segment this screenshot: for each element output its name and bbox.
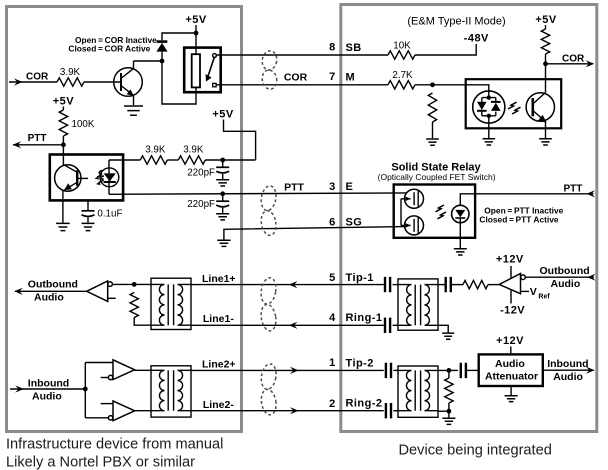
wire A4 output (outbound audio) xyxy=(525,276,594,278)
wire Line2- to cap xyxy=(191,410,384,412)
wire Line1- to cap xyxy=(191,324,384,326)
svg-text:PTT: PTT xyxy=(28,133,47,144)
U2 bidirectional LED xyxy=(473,91,505,123)
wire +5V to 100K xyxy=(62,107,64,111)
svg-text:Infrastructure device from man: Infrastructure device from manual xyxy=(6,436,223,452)
ground below U1 emitter xyxy=(56,223,70,230)
svg-text:PTT: PTT xyxy=(284,182,304,194)
relay K1 contact square xyxy=(213,83,216,86)
svg-text:Closed = PTT Active: Closed = PTT Active xyxy=(479,215,558,225)
Line2+ arrowhead xyxy=(290,367,299,374)
svg-text:3.9K: 3.9K xyxy=(145,145,166,156)
svg-text:+5V: +5V xyxy=(185,14,206,26)
wire pull-up to collector xyxy=(545,54,547,93)
wire SG line (ground to SSR) xyxy=(224,227,405,240)
wire Q1 collector to diode node xyxy=(134,60,163,62)
node A1 input junction xyxy=(132,282,137,287)
ground below U2 LED xyxy=(483,139,496,145)
ground below 220pF-2 xyxy=(216,214,229,220)
svg-text:-12V: -12V xyxy=(500,304,525,316)
svg-text:4: 4 xyxy=(329,312,336,324)
svg-text:8: 8 xyxy=(329,42,335,54)
transistor Q1 (COR input) xyxy=(114,61,143,105)
svg-text:-48V: -48V xyxy=(464,32,489,44)
resistor (outbound gain) xyxy=(463,280,488,288)
wire inbound to buffer inputs xyxy=(85,363,113,418)
wire +5V bracket xyxy=(224,120,256,161)
svg-text:2: 2 xyxy=(329,398,335,410)
U2 emitter arrowhead xyxy=(538,115,547,123)
svg-text:COR: COR xyxy=(284,71,308,83)
wire +12V to attenuator xyxy=(510,347,512,355)
U1 photon arrows xyxy=(97,171,103,178)
ground below U3 LED xyxy=(454,249,467,255)
wire Ring-1 to transformer xyxy=(393,324,398,326)
SSR U3 box xyxy=(394,185,475,238)
inbound arrowhead xyxy=(15,385,24,392)
wire Ring-2 to transformer xyxy=(393,410,398,412)
optocoupler U1 box xyxy=(50,155,123,201)
wire 10K to -48V xyxy=(415,44,476,55)
svg-text:10K: 10K xyxy=(393,41,411,52)
svg-text:Audio: Audio xyxy=(34,291,64,303)
ground below T4 xyxy=(442,418,455,424)
svg-text:+12V: +12V xyxy=(496,335,524,347)
diode D1 flyback xyxy=(157,40,168,43)
op-amp A1 (outbound buffer) xyxy=(87,281,116,301)
svg-text:COR: COR xyxy=(562,53,585,64)
svg-text:Audio: Audio xyxy=(551,278,581,290)
svg-text:V: V xyxy=(530,286,537,298)
COR input arrowhead xyxy=(14,78,23,85)
resistor (T4 termination) xyxy=(445,378,453,403)
wire 2.7K to U2 LED xyxy=(415,85,489,91)
capacitor C (audio in) xyxy=(461,363,466,378)
svg-text:Audio: Audio xyxy=(32,391,62,403)
resistor 3.9K (a) xyxy=(140,156,167,164)
wire Tip-1 to transformer xyxy=(393,284,398,286)
svg-text:Inbound: Inbound xyxy=(547,358,588,370)
ground below M pull-down xyxy=(426,139,439,145)
node T4 top junction xyxy=(447,368,452,373)
twisted pair line2 (twisted pair) xyxy=(260,363,278,416)
wire T4 top to cap xyxy=(438,369,458,371)
node PTT junction xyxy=(61,142,66,147)
wire +12V to A4 xyxy=(510,266,512,279)
wire T4 bottom xyxy=(438,410,449,412)
op-amp A4 (outbound) xyxy=(499,274,529,294)
wire E line (LED cathode to SSR) xyxy=(109,193,406,194)
svg-text:Outbound: Outbound xyxy=(28,278,78,290)
wire inbound audio input xyxy=(10,388,85,390)
wire C to resistor xyxy=(452,284,463,286)
resistor (M pull-down) xyxy=(428,93,436,122)
ground below U2 transistor xyxy=(539,139,552,145)
transformer T3 xyxy=(398,279,438,330)
wire COR input xyxy=(9,81,57,83)
wire pull-down to ground xyxy=(432,122,434,138)
svg-text:3.9K: 3.9K xyxy=(60,67,81,78)
wire +5V to relay coil top xyxy=(195,25,197,55)
svg-text:Closed = COR Active: Closed = COR Active xyxy=(68,44,150,54)
ground below 0.1uF xyxy=(82,223,95,230)
wire C to attenuator xyxy=(467,369,479,371)
svg-text:Device being integrated: Device being integrated xyxy=(399,443,552,459)
Line2- arrowhead xyxy=(290,407,299,414)
U3 FET 1 xyxy=(401,189,424,208)
wire relay contact bottom to pin 7 xyxy=(216,84,388,86)
relay arm arrowhead xyxy=(206,74,212,82)
svg-text:0.1uF: 0.1uF xyxy=(97,209,122,220)
Q1 emitter arrowhead xyxy=(127,89,134,96)
wire U1 box to 0.1uF xyxy=(87,200,89,210)
wire A4 to -12V xyxy=(510,291,512,304)
node U2 LED bottom xyxy=(487,114,491,118)
node diode/collector junction xyxy=(160,59,165,64)
node M divider junction xyxy=(430,82,435,87)
wire 100K to opto collector xyxy=(62,136,64,166)
svg-text:SB: SB xyxy=(346,42,362,54)
U1 LED triangle and cathode bar xyxy=(104,173,116,181)
wire attenuator to ground xyxy=(510,386,512,395)
wire node to 220pF-2 xyxy=(222,194,224,201)
PTT output arrowhead xyxy=(13,141,22,148)
wire A1 input to T1 xyxy=(112,283,151,285)
wire U3 LED cathode to ground xyxy=(459,218,461,248)
right enclosure box (device being integrated) xyxy=(341,5,597,432)
optocoupler U2 box xyxy=(466,79,562,128)
svg-text:M: M xyxy=(346,72,356,84)
buffer A2 (Line2+ driver) xyxy=(101,360,135,380)
node T4 bottom junction xyxy=(447,409,452,414)
wire attenuator output (inbound audio) xyxy=(543,369,594,371)
svg-text:220pF: 220pF xyxy=(187,168,215,179)
U3 photon bolts xyxy=(436,205,445,212)
node U2 LED top xyxy=(487,95,491,99)
relay K1 contact circle xyxy=(213,54,217,58)
ground below T3 xyxy=(442,333,454,339)
svg-text:Line2-: Line2- xyxy=(203,399,234,411)
node +5V/diode junction xyxy=(194,31,199,36)
wire +5V stub xyxy=(545,25,547,29)
COR out arrowhead xyxy=(586,60,595,67)
U1 phototransistor xyxy=(55,165,88,192)
svg-text:2.7K: 2.7K xyxy=(392,70,413,81)
svg-text:COR: COR xyxy=(26,72,49,83)
resistor 3.9K (b) xyxy=(178,156,205,164)
wire outbound audio output xyxy=(15,290,87,292)
svg-text:E: E xyxy=(346,181,354,193)
svg-text:Ring-2: Ring-2 xyxy=(346,398,383,410)
svg-text:7: 7 xyxy=(329,71,335,83)
svg-text:+12V: +12V xyxy=(496,253,524,265)
wire U1 emitter to ground xyxy=(62,191,64,223)
wire 3.9K to +5V bracket xyxy=(205,159,255,161)
transformer T1 xyxy=(151,278,191,329)
inbound audio arrowhead (right) xyxy=(586,367,595,374)
U2 LED right diode (up) xyxy=(491,103,501,111)
svg-text:+5V: +5V xyxy=(212,109,233,121)
resistor 10K xyxy=(388,51,415,59)
wire PTT output xyxy=(13,144,63,146)
U1 emitter arrowhead xyxy=(64,183,72,190)
resistor (COR pull-up) xyxy=(541,29,549,54)
wire U3 LED anode to PTT xyxy=(460,194,593,206)
svg-text:Ring-1: Ring-1 xyxy=(346,312,383,324)
outbound arrowhead xyxy=(14,288,23,295)
wire resistor to A4 xyxy=(488,284,499,286)
outbound audio arrowhead (right) xyxy=(587,274,596,281)
twisted pair COR (twisted pair) xyxy=(261,50,278,90)
left enclosure box (infrastructure device) xyxy=(7,7,242,432)
U1 LED (with frame) xyxy=(100,160,123,194)
wire node to 220pF-1 xyxy=(222,160,224,167)
U3 LED xyxy=(452,205,469,222)
svg-text:Inbound: Inbound xyxy=(28,378,69,390)
svg-text:(Optically Coupled FET Switch): (Optically Coupled FET Switch) xyxy=(378,172,496,182)
wire U2 LED to ground xyxy=(488,123,490,138)
U2 photon bolts xyxy=(508,102,517,109)
wire Tip-2 to transformer xyxy=(393,369,398,371)
svg-text:SG: SG xyxy=(346,216,363,228)
wire Line1+ to cap xyxy=(191,284,384,286)
twisted pair line1 (twisted pair) xyxy=(259,277,277,332)
wire Line2+ to cap xyxy=(191,369,384,371)
U2 phototransistor xyxy=(526,93,554,139)
relay K1 xyxy=(184,48,221,93)
resistor (T1 termination) xyxy=(130,293,138,318)
ground below attenuator xyxy=(505,396,518,402)
wire A3 output to T2 xyxy=(135,410,151,412)
svg-text:Line1-: Line1- xyxy=(203,313,234,325)
svg-text:Line2+: Line2+ xyxy=(202,359,236,371)
transformer T4 xyxy=(398,366,438,417)
svg-text:Likely a Nortel PBX or similar: Likely a Nortel PBX or similar xyxy=(6,455,195,470)
wire U3 source tie xyxy=(400,199,402,226)
ground on SG line xyxy=(217,240,230,246)
ground below Q1 xyxy=(124,106,143,115)
wire resistor bottom to T1 bottom xyxy=(134,318,151,326)
U2 LED left diode (down) xyxy=(477,102,487,110)
svg-text:Tip-2: Tip-2 xyxy=(346,357,374,369)
twisted pair E/SG (twisted pair) xyxy=(260,185,278,237)
svg-text:1: 1 xyxy=(329,357,335,369)
wire T3 to C out xyxy=(438,284,445,286)
node 220pF-2 junction xyxy=(220,191,225,196)
svg-text:Outbound: Outbound xyxy=(540,265,590,277)
Line1+ arrowhead xyxy=(289,281,298,288)
svg-text:PTT: PTT xyxy=(564,184,583,195)
svg-text:+5V: +5V xyxy=(535,14,556,26)
wire T3 bottom to ground xyxy=(438,325,448,332)
wire resistor to Q1 base xyxy=(84,81,121,83)
resistor 3.9K (COR base) xyxy=(57,78,84,86)
svg-text:+5V: +5V xyxy=(53,96,74,108)
svg-text:Tip-1: Tip-1 xyxy=(346,272,374,284)
audio attenuator U4 box xyxy=(479,354,543,386)
ground below 220pF-1 xyxy=(216,180,229,186)
wire between 3.9K resistors xyxy=(167,159,178,161)
svg-text:220pF: 220pF xyxy=(187,199,215,210)
transformer T2 xyxy=(151,366,191,417)
wire relay contact top to pin 8 xyxy=(216,54,388,56)
wire LED anode line xyxy=(109,159,140,161)
svg-text:5: 5 xyxy=(329,272,335,284)
svg-text:100K: 100K xyxy=(72,119,95,130)
svg-text:Audio: Audio xyxy=(495,358,525,370)
wire 220pF-1 to ground xyxy=(222,174,224,179)
svg-text:6: 6 xyxy=(329,216,335,228)
buffer A3 (Line2- driver) xyxy=(101,401,135,421)
node 220pF-1 junction xyxy=(220,158,225,163)
capacitor C (audio out) xyxy=(446,277,451,292)
svg-text:Audio: Audio xyxy=(553,371,583,383)
wire A2 output to T2 xyxy=(135,369,151,371)
relay K1 switch arm xyxy=(208,58,214,76)
wire diode anode down to relay coil bottom xyxy=(162,52,196,104)
wire resistor ends xyxy=(448,370,450,411)
U3 FET 2 xyxy=(401,216,424,235)
resistor 100K xyxy=(59,110,67,136)
Line1- arrowhead xyxy=(289,322,298,329)
wire 0.1uF to ground xyxy=(87,217,89,222)
wire T4 bottom to ground xyxy=(448,411,450,417)
wire COR output xyxy=(546,63,594,65)
PTT arrowhead xyxy=(586,190,595,197)
svg-text:Ref: Ref xyxy=(538,294,550,301)
svg-text:3: 3 xyxy=(329,181,335,193)
node inbound junction xyxy=(83,387,88,392)
resistor 2.7K xyxy=(388,81,415,89)
svg-text:Line1+: Line1+ xyxy=(202,273,236,285)
svg-text:(E&M Type-II Mode): (E&M Type-II Mode) xyxy=(407,16,505,28)
wire 220pF-2 to ground xyxy=(222,208,224,213)
svg-text:Attenuator: Attenuator xyxy=(485,371,538,383)
wire junction to diode cathode xyxy=(162,33,196,40)
svg-text:3.9K: 3.9K xyxy=(183,145,204,156)
node COR output junction xyxy=(543,61,548,66)
